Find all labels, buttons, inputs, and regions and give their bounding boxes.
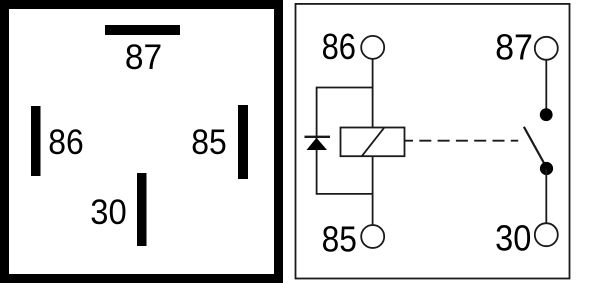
pin 85 blade (right vertical bar) [238, 105, 248, 179]
schematic frame (right panel) [296, 4, 570, 279]
diode D1 cathode bar [305, 136, 331, 138]
contact node lower (30 side) [540, 162, 553, 175]
pin 86 blade (left vertical bar) [31, 106, 41, 176]
terminal 85 [361, 225, 384, 248]
contact node upper (87 side) [540, 108, 553, 121]
svg-text:87: 87 [495, 27, 533, 68]
svg-text:86: 86 [322, 26, 356, 67]
wire 87 to contact [545, 60, 547, 112]
svg-text:85: 85 [191, 122, 227, 162]
wire contact to 30 [545, 169, 547, 224]
wire coil to 85 [372, 156, 374, 225]
coil diagonal stroke [362, 128, 384, 156]
diode branch wire (loop) [317, 88, 373, 194]
svg-text:30: 30 [495, 218, 531, 259]
wire 86 to coil [372, 59, 374, 128]
svg-text:85: 85 [322, 218, 357, 259]
svg-text:87: 87 [125, 37, 162, 77]
svg-text:86: 86 [48, 122, 84, 162]
svg-text:30: 30 [90, 192, 127, 232]
terminal 87 [535, 37, 558, 60]
relay base outline (left panel) [5, 5, 279, 279]
pin 87 blade (top horizontal bar) [105, 25, 180, 35]
relay coil K1 [341, 128, 405, 157]
terminal 30 [535, 223, 558, 246]
diode D1 anode triangle [307, 138, 328, 150]
terminal 86 [361, 36, 384, 59]
actuation dashed link [405, 140, 519, 142]
switch blade [524, 127, 547, 168]
pin 30 blade (bottom vertical bar) [137, 173, 147, 246]
